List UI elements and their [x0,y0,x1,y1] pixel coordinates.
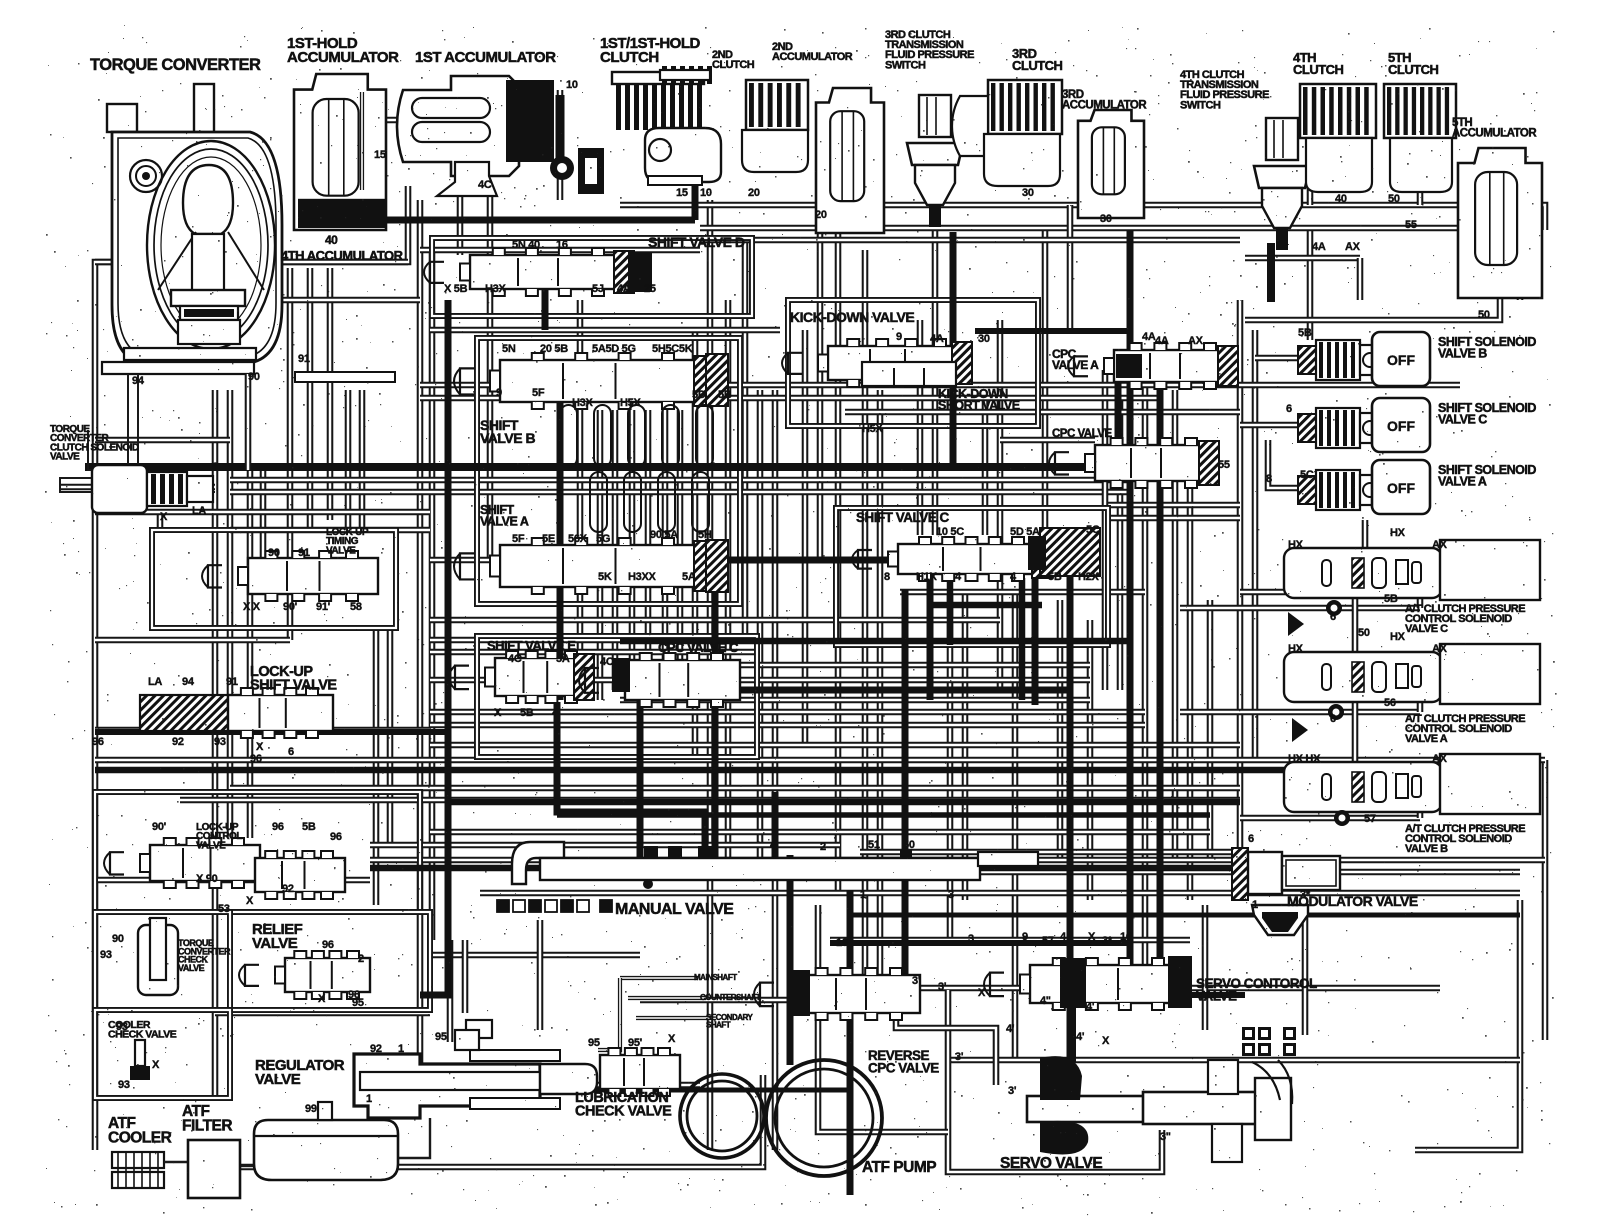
CPC valve C black cap [612,658,630,692]
wire: right edge vertical [1542,760,1549,1040]
svg-text:VALVE: VALVE [252,935,298,952]
wire: solenoid A feed [1268,440,1298,488]
wire: run y240 [700,237,1240,244]
wire: shaft feed drop [598,978,620,1050]
svg-text:94: 94 [132,375,145,387]
svg-text:CPC VALVE C: CPC VALVE C [658,640,739,655]
shift valve E spool [449,651,594,703]
svg-text:10: 10 [566,79,578,91]
wire: thick run y605 [930,602,1042,609]
wire: run y730 left [95,727,430,734]
svg-text:1ST ACCUMULATOR: 1ST ACCUMULATOR [415,49,556,66]
wire: run y512 left [95,509,430,516]
wire: thick run y560 [540,557,905,564]
torque converter clutch solenoid valve [92,465,213,513]
svg-text:CLUTCH: CLUTCH [1388,62,1439,77]
wire: thick shift valve E output [557,702,705,855]
svg-text:20: 20 [815,209,827,221]
modulator valve [1232,848,1340,900]
wire: thick vertical x640 [637,680,644,875]
svg-text:X: X [978,987,986,999]
wire: thick run y943 [830,940,1130,946]
svg-text:OFF: OFF [1387,480,1415,496]
svg-text:51: 51 [868,839,880,851]
wire: long run y385 [420,382,1460,389]
wire: 5th clutch drop [1417,100,1424,205]
svg-text:SWITCH: SWITCH [885,59,926,71]
2nd clutch body [742,130,808,172]
svg-text:5C: 5C [1086,524,1100,536]
svg-text:5G: 5G [596,533,610,545]
svg-text:ACCUMULATOR: ACCUMULATOR [1452,128,1537,140]
wire: thick vertical x775 low [772,792,779,858]
wire: run y480 [230,477,1130,484]
wire: tcc sol drop [157,513,164,530]
wire: thick vertical x850 ATF pump [847,890,854,1195]
wire: vertical x465 low [462,940,469,1013]
wire: left vertical trunk 2 [227,390,234,838]
servo control valve black caps [1060,958,1086,1008]
wire: vertical x935 [932,230,939,535]
wire: sol A down link [1352,702,1359,762]
manual valve [512,842,1038,889]
shift valve A spool [454,538,714,594]
svg-text:X: X [1088,931,1096,943]
manual valve position boxes [497,900,612,912]
wire: thick vertical x1130 [1127,230,1134,995]
svg-text:H3X: H3X [485,283,506,295]
wire: run y592 [900,589,1145,596]
3rd accumulator [1078,110,1144,218]
wire: thick stub shift valve D [637,258,644,292]
wire: tc drain 2 [60,374,215,492]
wire: thick servo drop [1068,1008,1076,1062]
wire: sol B link up [1417,806,1424,818]
wire: vertical x250 [247,470,254,838]
wire: vertical x1060 [1057,600,1064,860]
svg-text:VALVE B: VALVE B [1438,347,1487,361]
svg-text:4': 4' [1086,1001,1095,1013]
svg-text:CLUTCH: CLUTCH [1293,62,1344,77]
wire: sol B link [1240,815,1420,822]
svg-text:15: 15 [374,149,386,161]
svg-text:VALVE: VALVE [50,452,80,463]
svg-text:5D: 5D [692,389,706,401]
svg-text:50: 50 [903,839,915,851]
svg-text:9: 9 [896,331,902,343]
svg-text:ATF PUMP: ATF PUMP [862,1159,936,1176]
shift valve C hatched section [1040,528,1100,576]
svg-text:CHECK VALVE: CHECK VALVE [575,1103,672,1119]
shift solenoid valve A OFF box [1372,460,1430,514]
torque converter check valve [138,918,178,995]
shift valve C spool [852,537,1052,581]
1st-hold accumulator [294,74,386,230]
shift solenoid valve A coil [1298,470,1380,510]
wire: thick run y815 [557,812,1210,818]
svg-text:X: X [246,895,254,907]
wire: thick run y641 [620,638,1130,645]
servo valve indicator boxes [1242,1027,1296,1056]
relief valve spool [239,951,370,999]
svg-text:5H: 5H [698,529,712,541]
4th clutch body [1306,138,1372,192]
svg-text:3': 3' [912,975,921,987]
svg-text:SHIFT VALVE: SHIFT VALVE [250,677,337,693]
svg-text:5B: 5B [1048,571,1062,583]
svg-text:1: 1 [366,1093,372,1105]
shift valve B hatched plug [706,354,728,406]
wire: vertical x1205 low [1202,905,1209,1030]
svg-text:ACCUMULATOR: ACCUMULATOR [772,51,853,63]
wire: vertical x1210 [1207,600,1214,860]
wire: run y745 [430,742,1240,749]
wire: drop to 4A AX [1357,258,1364,300]
wire: countershaft stub [628,996,706,1000]
wire: vertical x805 [802,330,809,745]
svg-text:VALVE: VALVE [326,545,356,556]
svg-text:4A: 4A [1142,331,1156,343]
svg-text:30: 30 [1100,213,1112,225]
svg-text:2: 2 [820,841,826,853]
svg-text:95: 95 [435,1031,447,1043]
svg-text:10 5C: 10 5C [936,526,964,538]
svg-text:1: 1 [860,889,866,901]
svg-text:4A: 4A [930,333,944,345]
lock-up shift valve hatched block [140,695,228,731]
svg-text:4': 4' [1076,1031,1085,1043]
svg-text:FILTER: FILTER [182,1117,232,1134]
wire: solenoid C feed [1240,422,1298,429]
svg-text:VALVE: VALVE [196,840,226,851]
svg-text:4A: 4A [1155,335,1169,347]
svg-text:HX: HX [1390,631,1406,643]
svg-text:93: 93 [100,949,112,961]
A/T clutch pressure control solenoid valve A connector box [1440,644,1540,704]
wire: 3rd acc drop [1067,205,1074,330]
wire: vertical x263 [260,470,267,595]
wire: vertical from 4th accumulator [287,268,294,640]
svg-text:96: 96 [272,821,284,833]
svg-text:90: 90 [248,371,260,383]
svg-text:X 90: X 90 [196,873,218,885]
svg-text:6: 6 [212,461,218,473]
svg-text:90: 90 [112,933,124,945]
wire: vertical trunk x710 [707,200,714,1150]
wire: run y872 [980,869,1520,876]
wire: run y640 [430,637,760,644]
svg-text:5F: 5F [512,533,525,545]
wire: run y300 left [230,297,420,304]
svg-text:VALVE: VALVE [1196,988,1237,1003]
svg-text:58: 58 [350,601,362,613]
wire: run y880 left [95,877,370,884]
wire: thick run y915 [850,913,1520,918]
wire: thick vertical x448 [420,300,448,995]
svg-text:6: 6 [1330,611,1336,623]
lubrication check valve [600,1048,680,1096]
svg-text:MANUAL VALVE: MANUAL VALVE [615,901,734,918]
svg-text:6: 6 [1248,833,1254,845]
3rd clutch body [952,96,988,156]
wire: thick run bottom [420,1088,850,1093]
svg-text:X: X [152,1059,160,1071]
svg-text:VALVE B: VALVE B [1405,843,1448,855]
svg-text:VALVE: VALVE [178,963,205,973]
CPC valve A spool [1068,343,1238,389]
svg-text:5D 5A: 5D 5A [1010,526,1040,538]
wire: vertical 310 [307,268,314,530]
wire: run y1013 left [215,1010,430,1017]
wire: run y800 [180,797,1240,804]
wire: vertical 348 [345,390,352,530]
svg-text:25: 25 [644,283,656,295]
svg-text:H2X: H2X [1078,571,1099,583]
svg-text:X: X [160,511,168,523]
svg-text:20 5B: 20 5B [540,343,568,355]
svg-text:AX: AX [1432,753,1448,765]
wire: run y725 [430,722,1145,729]
wire: top long run y205 [620,205,1545,230]
connector blob row A [1292,718,1308,742]
wire: thick run y690 [640,687,1070,694]
wire: thick stub x545 [542,268,549,330]
svg-text:HX HX: HX HX [1288,753,1321,765]
wire: run y712 [430,709,1145,716]
wire: thick vertical x905 [902,590,909,1000]
box: shift valves B/A cluster [477,338,740,604]
wire: long run y760 [95,757,1545,764]
svg-text:H5X: H5X [620,397,641,409]
wire: thick vertical x715 [712,560,719,875]
svg-text:93: 93 [214,736,226,748]
svg-text:96: 96 [250,753,262,765]
svg-text:3*: 3* [1300,889,1311,901]
wire: vertical 330 [327,268,334,520]
wire: from 10 down [557,90,564,200]
lock-up control valve spool 2 [255,851,345,899]
wire: filter-pan link [240,1165,256,1167]
svg-text:MAINSHAFT: MAINSHAFT [694,973,737,982]
shift solenoid valve C coil [1298,408,1380,448]
wire: run y1000 [640,997,830,1004]
svg-text:5C: 5C [1300,469,1314,481]
svg-text:5N 40: 5N 40 [512,239,540,251]
A/T clutch pressure control solenoid valve C connector box [1440,540,1540,600]
wire: vertical x615 [612,410,619,690]
wire: left vertical trunk [212,390,219,1100]
wire: sol C down link [1352,598,1359,655]
svg-text:OFF: OFF [1387,418,1415,434]
svg-text:H1X: H1X [916,571,937,583]
svg-text:10: 10 [836,937,848,949]
wire: thick run y331 [975,328,1130,334]
svg-text:X: X [256,741,264,753]
wire: vertical x1305 low [1302,915,1309,1035]
5th accumulator [1458,148,1542,298]
svg-text:91: 91 [298,353,310,365]
box: lock-up timing valve cluster [152,530,396,628]
wire: run y652 [430,649,760,656]
svg-text:3': 3' [955,1051,964,1063]
wire: mainshaft stub [620,976,698,980]
3rd clutch transmission fluid pressure switch [907,95,963,227]
wire: long run y398 [420,395,1160,402]
wire: left border run [95,186,408,1150]
svg-text:5E: 5E [542,533,555,545]
wire: sol A link [1180,709,1420,716]
svg-text:AX: AX [1188,335,1204,347]
svg-text:96: 96 [322,939,334,951]
wire: run to solenoid A [1240,520,1365,592]
wire: vertical x1310 [1307,230,1314,340]
wire: 4th clutch drop [1307,100,1314,205]
svg-text:SHORT VALVE: SHORT VALVE [938,399,1020,413]
svg-text:5B: 5B [1384,593,1398,605]
wire: vertical x1175 [1172,390,1179,860]
svg-text:9: 9 [1022,931,1028,943]
wire: top long run y228 [700,228,1520,300]
svg-text:VALVE: VALVE [255,1071,301,1088]
wire: run y330 [430,327,780,334]
4th clutch transmission fluid pressure switch [1254,118,1310,250]
wire: thick drop 4th clutch switch [1115,360,1122,467]
reverse CPC valve spool [754,968,920,1020]
1st/1st-hold clutch [612,66,721,185]
box: cooler check valve cluster [95,1010,230,1098]
svg-text:2: 2 [358,953,364,965]
box: lock-up control valve cluster [95,792,420,912]
CPC valve C spool [579,653,740,707]
wire: thick drop from 3rd switch [950,232,957,467]
svg-text:HX: HX [1288,643,1304,655]
svg-text:96: 96 [330,831,342,843]
svg-text:99: 99 [305,1103,317,1115]
svg-text:ACCUMULATOR: ACCUMULATOR [287,49,399,66]
wire: run y518 [1108,515,1240,522]
svg-text:H3XX: H3XX [628,571,656,583]
svg-text:3'': 3'' [1160,1131,1171,1143]
cooler check valve [130,1040,150,1080]
svg-text:CPC VALVE B: CPC VALVE B [1052,428,1122,440]
wire: vertical x695 [692,330,699,760]
wire: vertical x1120 [1117,398,1124,690]
A/T clutch pressure control solenoid valve C [1284,548,1442,598]
wire: bottom right corner [1415,900,1520,1150]
shift valve D spool [424,248,634,296]
svg-text:10: 10 [700,187,712,199]
svg-text:H5X: H5X [862,423,883,435]
svg-text:90': 90' [283,601,298,613]
shift solenoid valve C OFF box [1372,398,1430,452]
wire: accumulator stub [370,117,408,124]
svg-text:30: 30 [978,333,990,345]
svg-text:AX: AX [1432,539,1448,551]
wire: vertical 376 [373,628,380,905]
wire: vertical x490 [487,186,494,560]
svg-text:92: 92 [172,736,184,748]
svg-text:HX: HX [1390,527,1406,539]
wire: tc drain 1 [88,374,128,470]
svg-text:KICK-DOWN VALVE: KICK-DOWN VALVE [790,309,914,325]
wire: vertical x985 [982,400,989,535]
svg-text:CLUTCH: CLUTCH [1012,58,1063,73]
kick-down short valve spool [862,362,956,386]
wire: reverse cpc down run [818,905,948,1132]
svg-text:VALVE A: VALVE A [1052,358,1099,372]
box: kick-down valve cluster [788,300,1038,426]
wire: run y788 [230,785,1240,792]
ATF pump [680,1060,882,1176]
svg-text:4A: 4A [1312,241,1326,253]
wire: thick drop under shift valve C 2 [1019,578,1026,700]
shift valve A hatched plug [706,540,728,592]
svg-text:4A: 4A [617,283,631,295]
wire: vertical x648 [645,410,652,680]
svg-text:90 5A: 90 5A [650,529,678,541]
shift valve D black land [628,252,652,292]
wire: thick run y802 [448,799,1240,806]
wire: vertical x745 [742,240,749,640]
svg-text:90: 90 [268,547,280,559]
connector blob row C [1288,612,1304,636]
wire: vertical x1145 [1142,380,1149,990]
wire: vertical x665 [662,410,669,680]
modulator funnel [1252,905,1308,935]
CPC valve A black land [1116,354,1142,378]
wire: run y487 left [60,484,215,491]
svg-text:91: 91 [298,547,310,559]
wire: sol A link up [1417,696,1424,712]
svg-text:SHAFT: SHAFT [706,1020,731,1029]
wire: sol C link up [1417,592,1424,608]
servo valve [1027,1056,1292,1162]
shift valve B spool [454,353,714,409]
svg-text:AX: AX [1432,643,1448,655]
5th clutch body [1390,138,1452,192]
wire: run y665 [620,662,1090,669]
wire: thick main line y220 [307,217,695,224]
wire: thick vertical x790 [787,855,794,1065]
wire: vertical x760 [757,390,764,860]
wire: tc down pipe [245,374,252,470]
svg-text:X 5B: X 5B [444,283,468,295]
svg-text:CLUTCH: CLUTCH [712,59,755,71]
svg-text:57: 57 [1042,935,1054,947]
wire: bottom run [212,1075,763,1167]
CPC valve B spool [1049,438,1219,488]
svg-text:5A: 5A [682,571,696,583]
svg-text:3: 3 [968,933,974,945]
svg-text:4'': 4'' [1040,995,1051,1007]
wire: vertical x865 [862,250,869,1000]
wire: vertical x965 [962,590,969,900]
svg-text:92: 92 [282,883,294,895]
svg-text:40: 40 [1335,193,1347,205]
torque converter [102,84,395,382]
svg-text:OFF: OFF [1387,352,1415,368]
wire: run y530 left [230,527,430,534]
svg-text:SERVO VALVE: SERVO VALVE [1000,1155,1102,1172]
wire: vertical 390 [387,628,394,845]
svg-text:5J: 5J [592,283,604,295]
svg-text:90': 90' [152,821,167,833]
wire: vertical x1255 [1252,330,1259,760]
wire: thick vertical x560 [557,385,564,700]
wire: vertical x920 [917,320,924,535]
svg-text:1: 1 [748,1083,754,1095]
svg-text:X: X [494,707,502,719]
